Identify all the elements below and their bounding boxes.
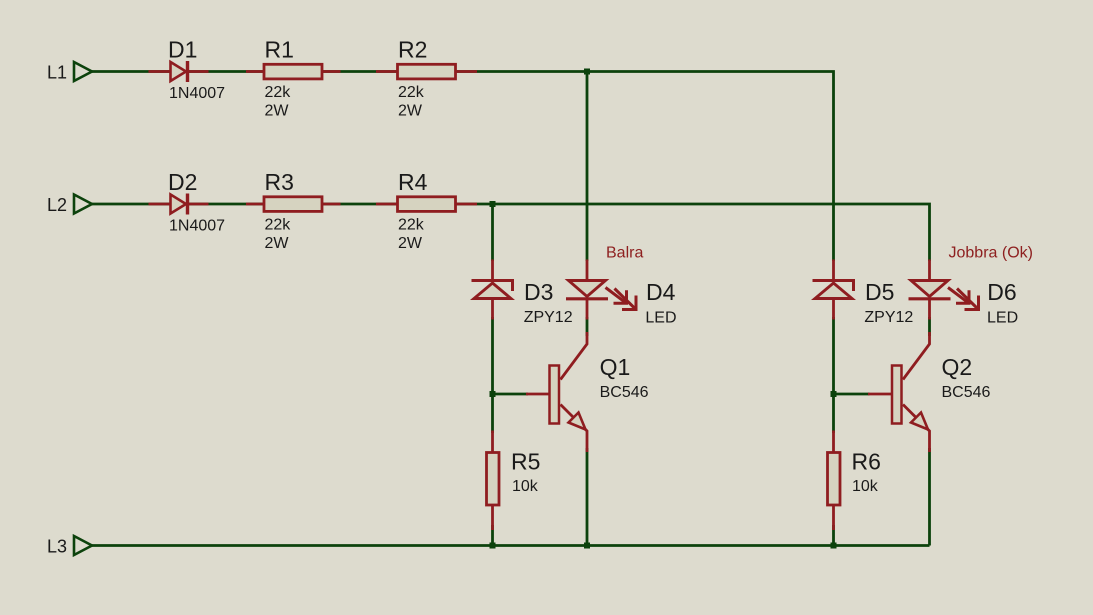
diode D1	[149, 37, 226, 103]
svg-text:2W: 2W	[265, 235, 290, 252]
junction node Q2 base	[831, 391, 837, 397]
transistor Q1	[526, 332, 649, 452]
wire branch L1 to D4	[586, 72, 589, 262]
wire D3 to base node to R5	[491, 317, 494, 433]
svg-text:2W: 2W	[265, 103, 290, 120]
svg-text:1N4007: 1N4007	[169, 218, 225, 235]
svg-text:2W: 2W	[398, 103, 423, 120]
svg-text:R4: R4	[398, 169, 428, 195]
svg-text:10k: 10k	[512, 478, 539, 495]
junction node L3/R6	[831, 543, 837, 549]
diode D2	[149, 169, 226, 235]
resistor R5	[487, 431, 541, 531]
svg-text:Jobbra (Ok): Jobbra (Ok)	[949, 245, 1033, 262]
svg-text:LED: LED	[645, 310, 676, 327]
svg-text:L1: L1	[47, 63, 67, 83]
wire net L1 horizontal and down to D5	[92, 72, 834, 262]
svg-text:D4: D4	[646, 279, 676, 305]
junction node Q1 base	[490, 391, 496, 397]
wire R6 to L3	[832, 525, 835, 546]
svg-text:BC546: BC546	[942, 384, 991, 401]
resistor R4	[376, 169, 477, 252]
svg-text:L2: L2	[47, 195, 67, 215]
svg-text:ZPY12: ZPY12	[864, 309, 913, 326]
svg-text:D1: D1	[168, 37, 197, 63]
wire Q2 emitter down	[928, 448, 931, 546]
svg-text:Q1: Q1	[600, 354, 631, 380]
svg-text:Q2: Q2	[942, 354, 973, 380]
svg-text:R5: R5	[511, 449, 540, 475]
terminal L3	[47, 536, 92, 557]
svg-text:R1: R1	[265, 37, 294, 63]
svg-text:R3: R3	[265, 169, 294, 195]
svg-text:BC546: BC546	[600, 384, 649, 401]
svg-text:22k: 22k	[398, 217, 425, 234]
terminal L1	[47, 62, 92, 83]
svg-text:2W: 2W	[398, 235, 423, 252]
svg-text:R2: R2	[398, 37, 427, 63]
svg-text:ZPY12: ZPY12	[524, 309, 573, 326]
svg-text:R6: R6	[852, 449, 881, 475]
junction node L1/D4	[584, 69, 590, 75]
transistor Q2	[868, 332, 991, 452]
zener diode D5	[813, 260, 914, 327]
resistor R2	[376, 37, 477, 120]
svg-text:22k: 22k	[398, 84, 425, 101]
wire D5 to base node to R6	[832, 317, 835, 433]
junction node L3/R5	[490, 543, 496, 549]
wire Q1 emitter down	[586, 448, 589, 546]
resistor R3	[246, 169, 341, 252]
wire D6 to Q2 collector	[928, 317, 931, 336]
svg-text:LED: LED	[987, 310, 1018, 327]
LED D4	[566, 260, 677, 327]
junction node L2/D3	[490, 201, 496, 207]
svg-text:D6: D6	[987, 279, 1016, 305]
wire base node to Q1	[493, 393, 529, 396]
terminal L2	[47, 195, 92, 216]
svg-text:D2: D2	[168, 169, 197, 195]
junction node L3/Q1 emitter	[584, 543, 590, 549]
svg-text:22k: 22k	[265, 84, 292, 101]
svg-text:D3: D3	[524, 279, 553, 305]
svg-text:1N4007: 1N4007	[169, 85, 225, 102]
wire D4 to Q1 collector	[586, 317, 589, 336]
svg-text:Balra: Balra	[606, 245, 643, 262]
resistor R6	[828, 431, 881, 531]
wire net L3 rail	[92, 544, 930, 547]
wire base node to Q2	[834, 393, 870, 396]
resistor R1	[246, 37, 341, 120]
wire R5 to L3	[491, 525, 494, 546]
svg-text:D5: D5	[865, 279, 894, 305]
svg-text:L3: L3	[47, 537, 67, 557]
LED D6	[909, 260, 1019, 327]
svg-text:22k: 22k	[265, 217, 292, 234]
wire branch L2 to D3	[491, 204, 494, 261]
svg-text:10k: 10k	[852, 478, 879, 495]
zener diode D3	[472, 260, 573, 327]
wire net L2 horizontal and down to D6	[92, 204, 930, 261]
